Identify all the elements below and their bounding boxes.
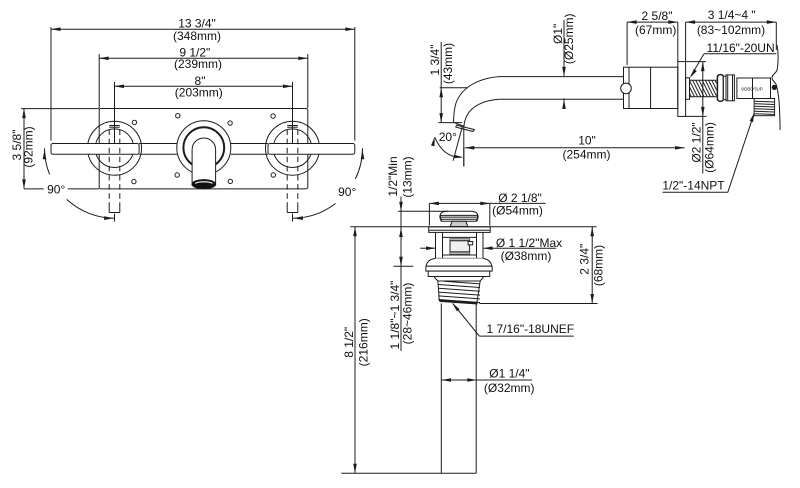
svg-text:1/2"-14NPT: 1/2"-14NPT xyxy=(662,179,725,193)
svg-text:9OBO"|UP: 9OBO"|UP xyxy=(741,86,763,91)
svg-text:(68mm): (68mm) xyxy=(591,245,605,286)
svg-text:(13mm): (13mm) xyxy=(401,156,415,197)
svg-text:(Ø32mm): (Ø32mm) xyxy=(484,381,535,395)
svg-text:90°: 90° xyxy=(47,183,65,197)
svg-text:Ø1 1/4": Ø1 1/4" xyxy=(489,366,529,380)
svg-text:1 7/16"-18UNEF: 1 7/16"-18UNEF xyxy=(486,322,574,336)
svg-text:1/2"Min: 1/2"Min xyxy=(386,156,400,196)
svg-text:(254mm): (254mm) xyxy=(562,147,610,161)
svg-text:10": 10" xyxy=(578,134,596,148)
svg-text:(203mm): (203mm) xyxy=(175,86,223,100)
svg-text:(43mm): (43mm) xyxy=(441,43,455,84)
svg-text:(348mm): (348mm) xyxy=(173,29,221,43)
svg-text:(67mm): (67mm) xyxy=(635,23,676,37)
svg-text:8 1/2": 8 1/2" xyxy=(342,327,356,358)
svg-text:(239mm): (239mm) xyxy=(174,57,222,71)
svg-text:(216mm): (216mm) xyxy=(356,318,370,366)
svg-text:(92mm): (92mm) xyxy=(22,126,36,167)
svg-text:1 3/4": 1 3/4" xyxy=(428,45,442,76)
svg-text:90°: 90° xyxy=(338,185,356,199)
svg-text:(83~102mm): (83~102mm) xyxy=(697,23,765,37)
svg-text:2 3/4": 2 3/4" xyxy=(578,244,592,275)
svg-text:(Ø54mm): (Ø54mm) xyxy=(492,204,543,218)
svg-text:(Ø64mm): (Ø64mm) xyxy=(703,122,717,173)
svg-text:(Ø38mm): (Ø38mm) xyxy=(501,249,552,263)
svg-text:11/16"-20UN: 11/16"-20UN xyxy=(707,41,775,55)
svg-text:3 1/4~4 ": 3 1/4~4 " xyxy=(708,8,756,22)
svg-text:(Ø25mm): (Ø25mm) xyxy=(562,13,576,64)
svg-text:2 5/8": 2 5/8" xyxy=(642,9,673,23)
svg-text:Ø 1 1/2"Max: Ø 1 1/2"Max xyxy=(496,236,562,250)
svg-text:20°: 20° xyxy=(439,130,457,144)
svg-text:(28~46mm): (28~46mm) xyxy=(401,283,415,345)
svg-text:Ø2 1/2": Ø2 1/2" xyxy=(690,122,704,162)
